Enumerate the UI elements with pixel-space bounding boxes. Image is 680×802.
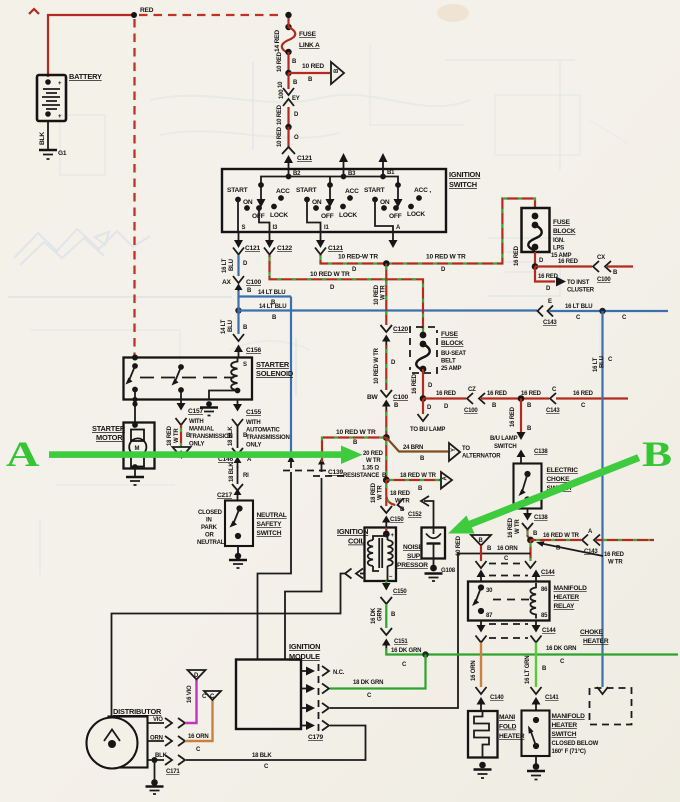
ground starter motor xyxy=(126,469,144,486)
svg-text:BLU: BLU xyxy=(228,320,234,332)
svg-text:A: A xyxy=(6,434,39,474)
svg-text:LPS: LPS xyxy=(553,246,564,252)
svg-text:16 RED: 16 RED xyxy=(573,391,594,397)
fuse block IGN LPS xyxy=(522,208,576,259)
wire 14 LT BLU down to C139 (blue drop) xyxy=(290,297,292,461)
svg-text:W TR: W TR xyxy=(174,428,180,443)
annotation arrow A xyxy=(6,434,363,474)
svg-text:ON: ON xyxy=(243,199,253,206)
svg-text:MOTOR: MOTOR xyxy=(96,433,123,442)
svg-text:N.C.: N.C. xyxy=(333,670,345,676)
manifold heater relay xyxy=(468,582,587,621)
svg-text:C141: C141 xyxy=(545,695,559,701)
svg-text:C157: C157 xyxy=(188,408,203,415)
svg-text:18 RED W TR: 18 RED W TR xyxy=(400,473,437,479)
svg-text:85: 85 xyxy=(541,613,548,619)
svg-text:RESISTANCE: RESISTANCE xyxy=(343,473,379,479)
svg-text:C152: C152 xyxy=(408,512,422,518)
coil negative connector xyxy=(345,569,365,579)
svg-text:16 RED: 16 RED xyxy=(514,245,520,266)
svg-text:START: START xyxy=(296,187,317,194)
wire 18 BLK to C146 xyxy=(237,426,239,448)
wire 16 RED segment 2 xyxy=(481,397,549,399)
battery xyxy=(37,72,102,121)
svg-text:10 RED: 10 RED xyxy=(277,104,283,125)
wire 16 ORN distributor xyxy=(185,700,213,741)
node AX junction xyxy=(235,307,241,313)
svg-text:16 RED: 16 RED xyxy=(604,552,625,558)
svg-text:30: 30 xyxy=(486,588,493,594)
svg-text:ACC ,: ACC , xyxy=(414,187,431,194)
svg-text:16 DK GRN: 16 DK GRN xyxy=(546,646,576,652)
svg-text:10 RED: 10 RED xyxy=(302,63,324,70)
svg-text:10 RED W TR: 10 RED W TR xyxy=(426,254,466,261)
svg-text:SWITCH: SWITCH xyxy=(494,444,516,450)
black wire module to choke node xyxy=(330,554,531,709)
svg-text:FUSE: FUSE xyxy=(553,219,571,226)
svg-text:14 LT BLU: 14 LT BLU xyxy=(258,290,285,296)
svg-text:RI: RI xyxy=(243,473,249,479)
node xyxy=(285,124,291,130)
svg-text:C100: C100 xyxy=(393,394,408,401)
connector EY xyxy=(283,88,300,106)
ground manifold heater switch xyxy=(527,756,545,780)
svg-text:16 ORN: 16 ORN xyxy=(497,546,517,552)
connector C121 I1 xyxy=(315,248,326,255)
distributor pin ORN xyxy=(148,736,186,747)
choke heater dashed box xyxy=(590,688,632,725)
wire red to EY connector xyxy=(287,73,289,89)
svg-text:BELT: BELT xyxy=(441,359,456,365)
wire 16 DK GRN xyxy=(385,604,387,628)
svg-text:W TR: W TR xyxy=(608,560,623,566)
svg-text:16 ORN: 16 ORN xyxy=(188,734,208,740)
wire 18 RED WTR to A xyxy=(386,479,440,481)
wire 18 BLK to C217 xyxy=(237,466,239,484)
ground manifold heater xyxy=(474,762,492,778)
electric choke switch xyxy=(514,464,579,509)
connector C139 red side xyxy=(313,458,345,476)
pin arrow into switch xyxy=(288,162,290,169)
wire I3 internal xyxy=(259,208,270,232)
svg-text:C121: C121 xyxy=(328,245,343,252)
connector C144 left xyxy=(476,561,487,568)
wire 10 RED WTR to junction xyxy=(385,410,387,438)
svg-text:C150: C150 xyxy=(390,517,404,523)
svg-text:TRANSMISSION: TRANSMISSION xyxy=(246,435,290,441)
wire A internal xyxy=(375,200,393,233)
svg-text:CLOSED BELOW: CLOSED BELOW xyxy=(552,741,599,747)
node 16 RED xyxy=(420,395,427,402)
terminal A xyxy=(392,232,394,240)
fuse block BU-SEAT BELT xyxy=(410,327,466,373)
svg-text:CZ: CZ xyxy=(468,387,476,393)
svg-text:SWITCH: SWITCH xyxy=(449,180,477,189)
svg-text:C138: C138 xyxy=(534,515,548,521)
svg-text:SOLENOID: SOLENOID xyxy=(256,369,294,378)
label with manual transmission only xyxy=(189,419,233,448)
wire to inst cluster xyxy=(535,267,555,282)
connector triangle D xyxy=(188,670,206,680)
wire red to C121 xyxy=(287,127,289,147)
wire 16 DK GRN to junction xyxy=(386,648,425,655)
svg-text:SAFETY: SAFETY xyxy=(257,521,283,528)
svg-text:LOCK: LOCK xyxy=(270,212,288,219)
module pin 4 xyxy=(301,721,329,731)
wire 16 LT BLU vertical xyxy=(601,311,603,687)
svg-text:LOCK: LOCK xyxy=(339,212,357,219)
svg-text:16 RED: 16 RED xyxy=(412,373,418,394)
connector C122 I3 xyxy=(264,248,275,255)
ground G108 xyxy=(425,559,456,582)
svg-text:C144: C144 xyxy=(542,628,556,634)
svg-text:SWITCH: SWITCH xyxy=(552,731,577,738)
svg-text:TRANSMISSION: TRANSMISSION xyxy=(189,434,233,440)
svg-text:BATTERY: BATTERY xyxy=(69,72,102,81)
wire 16 VIO xyxy=(185,680,197,723)
svg-text:ACC: ACC xyxy=(345,188,359,195)
svg-text:16 RED: 16 RED xyxy=(508,517,514,538)
wire module feed 2 xyxy=(285,478,322,660)
annotation arrow B xyxy=(448,434,672,533)
svg-text:HEATER: HEATER xyxy=(583,638,609,645)
terminal I3 xyxy=(269,232,271,240)
svg-text:16 LT GRN: 16 LT GRN xyxy=(525,656,531,684)
node blue xyxy=(599,308,605,314)
contacts group 3 xyxy=(364,187,431,220)
svg-text:20 RED: 20 RED xyxy=(363,451,384,457)
svg-text:18 DK GRN: 18 DK GRN xyxy=(353,680,383,686)
svg-text:W TR: W TR xyxy=(378,485,384,500)
svg-text:OFF: OFF xyxy=(389,213,402,220)
svg-text:W TR: W TR xyxy=(381,285,387,300)
svg-text:C139: C139 xyxy=(328,469,343,476)
svg-text:B3: B3 xyxy=(348,171,356,177)
wire 16 RED WTR choke to node xyxy=(528,530,531,541)
wire 16 ORN heater xyxy=(480,643,482,688)
svg-text:16 RED: 16 RED xyxy=(558,259,579,265)
starter solenoid xyxy=(124,355,294,400)
svg-text:16 ORN: 16 ORN xyxy=(471,661,477,681)
svg-text:10 RED W TR: 10 RED W TR xyxy=(336,429,376,436)
switch wiper 2 xyxy=(326,182,335,207)
connector C150 top xyxy=(381,506,405,528)
svg-text:C140: C140 xyxy=(490,695,504,701)
svg-text:M: M xyxy=(135,446,140,452)
svg-text:C155: C155 xyxy=(246,409,261,416)
wire 18 RED WTR down to C150 xyxy=(385,497,387,506)
svg-text:C171: C171 xyxy=(166,769,180,775)
connector triangle A manual xyxy=(173,447,191,458)
svg-text:BU-SEAT: BU-SEAT xyxy=(441,351,466,357)
svg-text:25 AMP: 25 AMP xyxy=(441,366,461,372)
svg-text:NOISE: NOISE xyxy=(403,544,423,551)
module pin 1 xyxy=(301,666,345,676)
svg-text:HEATER: HEATER xyxy=(552,722,578,729)
connector C121 S xyxy=(233,248,244,255)
wire 16 RED end xyxy=(607,265,633,267)
connector triangle B relay feed xyxy=(456,535,492,556)
wire 16 LT GRN switch xyxy=(535,643,537,688)
wire 16 RED WTR far right xyxy=(596,539,654,541)
svg-text:14 LT: 14 LT xyxy=(221,319,227,334)
connector C120 xyxy=(381,325,409,347)
svg-text:S: S xyxy=(242,225,246,231)
connector BW C100 xyxy=(367,390,408,412)
terminal C157 from solenoid xyxy=(176,392,204,425)
svg-text:Y: Y xyxy=(451,448,457,452)
svg-text:ALTERNATOR: ALTERNATOR xyxy=(462,454,501,460)
svg-text:HEATER: HEATER xyxy=(554,594,580,601)
svg-text:C100: C100 xyxy=(464,408,478,414)
svg-text:RED: RED xyxy=(140,7,154,14)
svg-text:C100: C100 xyxy=(246,279,261,286)
wire solenoid to motor xyxy=(134,392,136,424)
node 10 RED WTR junction xyxy=(383,434,390,441)
GHOSTS xyxy=(8,4,630,575)
svg-text:16 RED: 16 RED xyxy=(521,391,542,397)
svg-text:W TR: W TR xyxy=(366,458,381,464)
connector C141 xyxy=(531,687,560,711)
svg-text:MANUAL: MANUAL xyxy=(189,427,214,433)
svg-text:B/U LAMP: B/U LAMP xyxy=(490,436,518,442)
svg-text:C143: C143 xyxy=(543,320,557,326)
svg-text:STARTER: STARTER xyxy=(256,360,290,369)
svg-text:CX: CX xyxy=(597,255,605,261)
svg-text:WITH: WITH xyxy=(246,420,261,426)
svg-text:LOCK: LOCK xyxy=(407,211,425,218)
wire battery ground lead xyxy=(47,121,49,150)
svg-text:16 RED: 16 RED xyxy=(436,391,457,397)
wire battery feed (red) xyxy=(48,15,134,77)
svg-text:160° F (71°C): 160° F (71°C) xyxy=(552,749,586,755)
module pin 2 xyxy=(301,684,329,694)
svg-text:AX: AX xyxy=(222,279,232,286)
connector CZ C100 xyxy=(464,387,485,414)
relay pins top xyxy=(477,570,541,582)
svg-text:1.35 Ω: 1.35 Ω xyxy=(362,466,379,472)
terminal S xyxy=(238,232,240,240)
svg-text:10: 10 xyxy=(278,81,284,88)
svg-text:C121: C121 xyxy=(245,245,260,252)
wire 16 RED right end xyxy=(556,397,628,399)
wire 24 BRN to alternator xyxy=(386,438,448,452)
svg-text:C121: C121 xyxy=(297,155,312,162)
pin arrow B3 xyxy=(343,161,345,169)
svg-text:G1: G1 xyxy=(58,150,67,157)
node choke feed xyxy=(518,395,525,402)
wire to BU lamp xyxy=(422,399,424,415)
connector triangle A xyxy=(441,472,452,489)
distributor xyxy=(87,707,163,769)
svg-text:O: O xyxy=(294,135,299,141)
distributor pin VIO xyxy=(148,717,186,728)
svg-text:MANIFOLD: MANIFOLD xyxy=(554,585,588,592)
contacts group 2 xyxy=(296,187,359,220)
svg-text:C120: C120 xyxy=(393,326,408,333)
wire 16 LT BLU right xyxy=(549,310,668,312)
svg-text:RELAY: RELAY xyxy=(554,603,576,610)
connector choke heater blue xyxy=(597,687,608,694)
svg-text:W TR: W TR xyxy=(515,519,521,534)
ignition module xyxy=(236,642,323,741)
svg-text:10 RED W TR: 10 RED W TR xyxy=(310,271,350,278)
module pin 3 xyxy=(301,703,329,713)
connector C138 bottom xyxy=(522,509,548,530)
wire 10 RED WTR to BW xyxy=(385,345,387,390)
svg-text:C144: C144 xyxy=(541,570,555,576)
wire I1 10 RED WTR xyxy=(321,199,536,264)
connector C152 red end xyxy=(398,499,405,511)
svg-text:SWITCH: SWITCH xyxy=(257,530,282,537)
wire 16 RED choke feed xyxy=(520,399,522,433)
node I1 branch xyxy=(383,260,390,267)
svg-text:IGNITION: IGNITION xyxy=(289,642,320,651)
svg-text:ON: ON xyxy=(380,199,390,206)
svg-text:CLUSTER: CLUSTER xyxy=(567,288,595,294)
manifold heater switch xyxy=(522,711,599,757)
wire I3 10 RED WTR xyxy=(270,255,424,335)
svg-text:16 LT: 16 LT xyxy=(593,357,599,372)
connector A C143 xyxy=(582,529,600,555)
svg-text:IGNITION: IGNITION xyxy=(337,527,368,536)
wire red to node xyxy=(287,107,289,127)
svg-text:GRN: GRN xyxy=(378,608,384,621)
svg-text:18 BLK: 18 BLK xyxy=(229,462,235,482)
svg-text:18 BLK: 18 BLK xyxy=(252,753,272,759)
svg-text:PARK: PARK xyxy=(201,525,218,531)
connector C143 red xyxy=(546,387,560,414)
svg-text:16 LT: 16 LT xyxy=(222,258,228,273)
connector C146 xyxy=(218,448,252,468)
svg-text:BLOCK: BLOCK xyxy=(553,228,576,235)
wire 10 RED relay feed xyxy=(480,546,482,562)
svg-text:18 BLK: 18 BLK xyxy=(228,426,234,446)
svg-text:WITH: WITH xyxy=(189,419,204,425)
node branch B xyxy=(285,70,291,76)
svg-text:B: B xyxy=(642,434,672,474)
svg-text:START: START xyxy=(227,187,248,194)
ignition coil xyxy=(337,527,396,581)
wire fuse to node xyxy=(534,252,536,267)
svg-text:C100: C100 xyxy=(597,277,611,283)
svg-text:C156: C156 xyxy=(246,347,261,354)
svg-text:10 RED: 10 RED xyxy=(456,535,462,556)
wire module feed 1 xyxy=(258,472,292,660)
svg-text:IGNITION: IGNITION xyxy=(449,170,480,179)
node top right xyxy=(285,12,291,18)
distributor pin BLK xyxy=(148,753,186,775)
wire I1 internal xyxy=(307,200,321,233)
svg-text:ONLY: ONLY xyxy=(246,443,262,449)
svg-text:C143: C143 xyxy=(546,408,560,414)
connector C156 xyxy=(233,334,261,357)
wire 10 RED branch right xyxy=(289,72,331,74)
svg-text:10 RED: 10 RED xyxy=(277,126,283,147)
wire 10 RED WTR vertical drop xyxy=(385,264,387,326)
wire coil negative to distributor loop xyxy=(112,574,346,717)
wire 14 LT BLU main to C143 xyxy=(239,296,538,334)
wire 16 RED to CX xyxy=(535,265,592,267)
svg-text:E: E xyxy=(548,299,552,305)
svg-text:C179: C179 xyxy=(308,734,323,741)
relay pins bottom xyxy=(477,621,557,635)
wire 20 RED WTR resistance xyxy=(385,438,387,481)
svg-text:MANI: MANI xyxy=(499,714,515,721)
connector C144 bottom row xyxy=(476,636,542,643)
svg-text:18 RED: 18 RED xyxy=(167,425,173,446)
connector C139 blue side xyxy=(283,456,329,471)
svg-text:ON: ON xyxy=(312,199,322,206)
svg-text:NEUTRAL: NEUTRAL xyxy=(257,512,287,519)
wire 18 DK GRN module xyxy=(330,655,426,689)
starter motor xyxy=(92,422,155,470)
svg-text:TO INST: TO INST xyxy=(567,280,590,286)
connector Y alternator xyxy=(449,443,501,461)
connector C151 xyxy=(381,628,409,650)
ground distributor xyxy=(146,760,164,794)
ground G1 xyxy=(39,150,67,159)
svg-text:CHOKE: CHOKE xyxy=(547,476,571,483)
svg-text:S: S xyxy=(243,362,247,368)
svg-text:16 VIO: 16 VIO xyxy=(187,685,193,703)
contacts group 1 xyxy=(227,187,290,220)
svg-text:PRESSOR: PRESSOR xyxy=(397,562,428,569)
switch wiper 1 xyxy=(257,182,266,207)
connector CX C100 xyxy=(593,255,618,283)
wire choke node down to C144 xyxy=(529,540,531,561)
svg-text:TO: TO xyxy=(462,446,470,452)
connector C140 xyxy=(476,687,505,711)
svg-text:18 RED: 18 RED xyxy=(371,482,377,503)
svg-text:CLOSED: CLOSED xyxy=(198,510,223,516)
svg-text:G108: G108 xyxy=(441,568,456,574)
bus rail xyxy=(261,177,398,184)
svg-text:BW: BW xyxy=(367,394,379,401)
svg-text:14 LT BLU: 14 LT BLU xyxy=(259,304,286,310)
svg-text:MODULE: MODULE xyxy=(289,652,320,661)
svg-text:C138: C138 xyxy=(534,449,548,455)
svg-text:OFF: OFF xyxy=(321,213,334,220)
ignition switch box U1 xyxy=(222,169,446,232)
svg-text:16 RED W TR: 16 RED W TR xyxy=(543,533,580,539)
svg-text:BLOCK: BLOCK xyxy=(441,340,464,347)
svg-text:18 RED: 18 RED xyxy=(390,491,411,497)
svg-text:STARTER: STARTER xyxy=(92,424,126,433)
wire 16 DK GRN main xyxy=(426,653,679,655)
svg-text:IGN.: IGN. xyxy=(553,238,565,244)
node 18 RED WTR xyxy=(383,477,390,484)
terminal I1 xyxy=(320,232,322,240)
svg-text:B1: B1 xyxy=(387,170,395,176)
svg-text:COIL: COIL xyxy=(348,537,366,546)
wire 18 RED WTR manual xyxy=(180,425,182,447)
svg-text:FUSE: FUSE xyxy=(441,331,459,338)
svg-text:ONLY: ONLY xyxy=(189,442,205,448)
noise suppressor xyxy=(397,496,445,569)
pin arrow B1 xyxy=(382,161,384,169)
wire S internal xyxy=(237,200,239,233)
wire red dashed horizontal xyxy=(139,14,284,16)
connector C121 top xyxy=(282,147,312,162)
terminal C155 from solenoid xyxy=(232,400,261,427)
svg-text:FUSE: FUSE xyxy=(299,31,317,38)
connector triangle C xyxy=(204,691,221,700)
wire 16 LT BLU from S xyxy=(237,255,239,276)
svg-text:AUTOMATIC: AUTOMATIC xyxy=(246,428,281,434)
svg-text:16 RED: 16 RED xyxy=(487,391,508,397)
svg-text:C150: C150 xyxy=(393,589,407,595)
